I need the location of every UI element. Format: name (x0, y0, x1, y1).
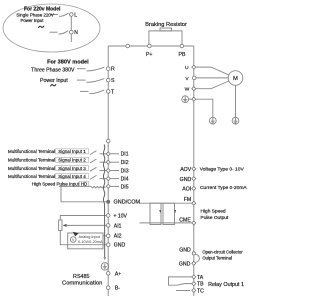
svg-text:AI2: AI2 (114, 234, 122, 240)
svg-text:W: W (185, 87, 190, 93)
svg-text:Signal Input 1: Signal Input 1 (58, 149, 86, 154)
svg-text:Output Terminal: Output Terminal (202, 255, 232, 260)
svg-text:Current Type 0-20mA: Current Type 0-20mA (200, 185, 247, 191)
svg-text:U: U (185, 65, 189, 71)
svg-text:Pulse Output: Pulse Output (201, 215, 229, 221)
svg-text:DI1: DI1 (121, 152, 129, 158)
svg-text:Open-circuit Collector: Open-circuit Collector (202, 250, 243, 255)
svg-text:L: L (74, 12, 77, 18)
svg-text:AOV: AOV (180, 167, 191, 173)
svg-text:R: R (111, 67, 115, 73)
svg-text:0-10V/0-20mA: 0-10V/0-20mA (78, 240, 103, 244)
svg-text:Multifunctional Terminal: Multifunctional Terminal (8, 174, 55, 179)
svg-text:B-: B- (115, 286, 120, 292)
svg-text:FM: FM (184, 197, 192, 203)
svg-text:Voltage Type 0- 10V: Voltage Type 0- 10V (200, 166, 245, 172)
svg-text:AI1: AI1 (114, 223, 122, 229)
svg-text:S: S (111, 78, 115, 84)
svg-text:Single Phase 220V: Single Phase 220V (16, 12, 53, 17)
svg-text:N: N (74, 30, 78, 36)
svg-text:Analog Input: Analog Input (79, 235, 101, 239)
svg-text:CME: CME (179, 217, 191, 223)
svg-text:A+: A+ (115, 271, 121, 277)
svg-text:V: V (185, 76, 189, 82)
svg-text:Multifunctional Terminal: Multifunctional Terminal (8, 158, 55, 163)
svg-text:TA: TA (197, 275, 204, 281)
svg-text:GND/COM: GND/COM (114, 200, 141, 206)
svg-text:DI3: DI3 (121, 168, 129, 174)
svg-text:P+: P+ (146, 52, 153, 58)
svg-text:PB: PB (179, 52, 186, 58)
svg-text:HD: HD (81, 182, 88, 187)
svg-text:Multifunctional Terminal: Multifunctional Terminal (8, 166, 55, 171)
svg-text:Multifunctional Terminal: Multifunctional Terminal (8, 149, 55, 154)
svg-text:M: M (233, 76, 238, 82)
svg-text:GND: GND (179, 248, 191, 254)
svg-text:Power Input: Power Input (40, 78, 68, 84)
svg-text:Signal Input 2: Signal Input 2 (58, 158, 86, 163)
svg-text:High Speed Pulse Input: High Speed Pulse Input (32, 182, 80, 187)
svg-text:RS485: RS485 (73, 274, 89, 280)
svg-text:Signal Input 3: Signal Input 3 (58, 166, 86, 171)
svg-text:GND: GND (114, 243, 126, 249)
svg-text:Communication: Communication (62, 280, 102, 286)
svg-text:Relay Output 1: Relay Output 1 (208, 282, 244, 288)
svg-text:High Speed: High Speed (201, 209, 226, 215)
svg-text:+ 10V: + 10V (114, 213, 128, 219)
svg-text:AOI: AOI (182, 187, 191, 193)
svg-text:Signal Input 4: Signal Input 4 (58, 174, 86, 179)
svg-text:TC: TC (197, 288, 204, 294)
svg-text:For 380V model: For 380V model (47, 60, 89, 66)
svg-text:Three Phase 380V: Three Phase 380V (31, 68, 75, 74)
svg-text:DI5: DI5 (121, 184, 129, 190)
svg-text:Power Input: Power Input (21, 18, 45, 23)
svg-text:T: T (111, 89, 115, 95)
svg-text:GND: GND (179, 261, 191, 267)
svg-text:GND: GND (180, 177, 192, 183)
svg-text:DI2: DI2 (121, 160, 129, 166)
svg-text:Braking Resistor: Braking Resistor (145, 22, 187, 28)
svg-text:DI4: DI4 (121, 177, 129, 183)
svg-text:TB: TB (197, 282, 204, 288)
